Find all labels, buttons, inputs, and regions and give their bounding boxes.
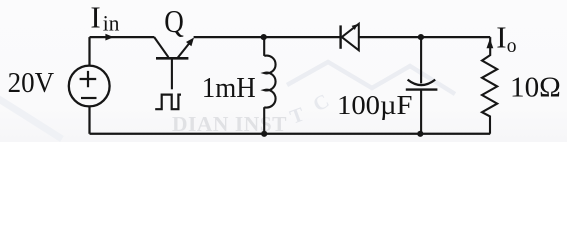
inductor L1 top lead: [263, 37, 265, 56]
svg-text:100µF: 100µF: [337, 89, 413, 120]
svg-text:I: I: [90, 0, 100, 35]
resistor R1 with leads: [482, 37, 497, 134]
svg-text:1mH: 1mH: [202, 72, 256, 104]
wire: source bottom lead: [88, 107, 90, 134]
wire: bottom rail: [90, 133, 491, 135]
source V1 circle: [69, 66, 110, 107]
source minus sign: [81, 97, 97, 99]
diode D1 triangle: [342, 24, 359, 51]
node A junction dot (inductor top): [261, 34, 267, 40]
svg-text:DIAN INST: DIAN INST: [172, 112, 287, 136]
svg-text:o: o: [507, 36, 517, 57]
inductor L1 bottom lead: [263, 107, 265, 134]
junction dot (capacitor bottom): [417, 131, 423, 137]
wire: source top lead: [88, 37, 90, 66]
diode D1 cathode bar: [339, 25, 341, 48]
capacitor C1 top lead: [420, 37, 422, 83]
transistor Q1 emitter with arrow: [178, 43, 190, 58]
transistor Q1 base bar: [156, 57, 188, 60]
wire: top rail right segment: [359, 36, 490, 38]
svg-text:20V: 20V: [8, 67, 55, 99]
arrow Iin on top rail: [105, 34, 113, 41]
arrow Io on resistor top lead: [487, 39, 494, 49]
svg-text:10Ω: 10Ω: [510, 73, 561, 104]
svg-text:Q: Q: [164, 4, 184, 39]
transistor Q1 base lead: [171, 58, 173, 89]
source plus sign: [80, 71, 97, 87]
capacitor C1 curved plate: [408, 80, 436, 86]
transistor Q1 collector diagonal: [154, 37, 168, 57]
wire: top rail left segment: [90, 36, 155, 38]
svg-text:I: I: [496, 20, 506, 55]
wire: top rail middle segment: [194, 36, 341, 38]
capacitor C1 bottom lead: [420, 90, 422, 134]
junction dot (inductor bottom): [261, 131, 267, 137]
svg-text:in: in: [103, 11, 120, 36]
node B junction dot (capacitor top): [418, 34, 424, 40]
diode D1 arrow tick: [352, 24, 358, 30]
watermark arc lower-left: [0, 96, 62, 139]
watermark chevron: [287, 62, 455, 94]
inductor L1 coil: [264, 56, 275, 108]
pulse drive symbol: [155, 95, 181, 110]
capacitor C1 straight plate: [406, 88, 438, 90]
